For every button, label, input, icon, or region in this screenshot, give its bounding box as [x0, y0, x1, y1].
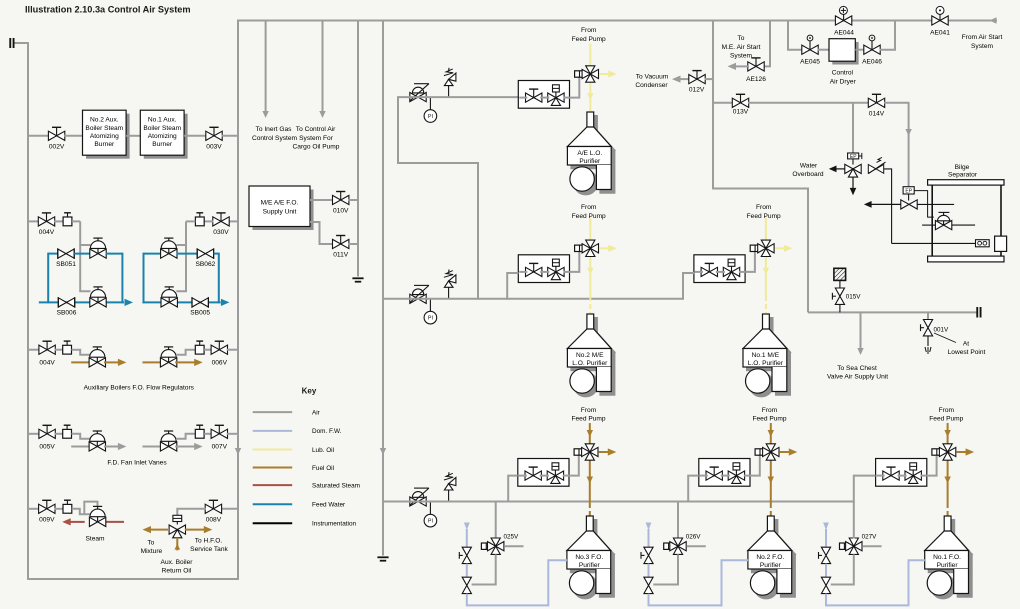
flow arrow from air start system (points left): [990, 17, 997, 23]
wire No.1 F.O. purifier feed box internal pipe: [877, 475, 885, 477]
valve 001V: [921, 320, 933, 336]
wire PRV row1 line: [398, 96, 519, 98]
control valve FD fan vane right: [160, 431, 176, 451]
pipe feed water left drop of right loop: [143, 253, 145, 304]
purifier shadow No.2 F.O.: [752, 520, 796, 599]
svg-text:Lowest Point: Lowest Point: [948, 349, 986, 356]
wire No.2 F.O. purifier feed box internal pipe: [700, 475, 708, 477]
wire between burner boxes: [126, 135, 140, 137]
valve 009V: [39, 500, 55, 513]
dom FW line mid (No.2): [648, 564, 650, 578]
EP pilot box (water overboard): [848, 153, 859, 159]
dom FW line mid (No.3): [466, 564, 468, 578]
svg-text:Fuel Oil: Fuel Oil: [312, 465, 334, 472]
svg-text:004V: 004V: [39, 359, 55, 366]
valve 030V: [213, 213, 229, 226]
svg-text:From Air Start: From Air Start: [962, 34, 1003, 41]
butterfly valve in No.2 F.O. purifier feed box: [706, 467, 722, 480]
fuel oil line from feed pump to No.1 F.O. purifier feed: [947, 423, 949, 444]
valve bilge discharge (EP operated): [901, 200, 917, 209]
svg-text:Purifier: Purifier: [579, 158, 601, 165]
strainer fitting right of SB group: [195, 213, 204, 226]
lub oil line from feed pump to No.1 M/E purifier: [765, 218, 767, 240]
three-way valve water overboard: [845, 164, 861, 177]
valve dom FW upper (No.1): [819, 547, 831, 563]
wire internal separator pipe: [922, 224, 935, 226]
wire branch to control air for cargo oil pump: [322, 21, 324, 112]
wire No.1 F.O. purifier feed box feed: [854, 476, 876, 503]
air line into right inlet vane: [143, 446, 162, 448]
pressure reducing valve row3: [410, 488, 429, 506]
cross valve 026V: [670, 538, 686, 554]
svg-text:002V: 002V: [49, 144, 65, 151]
wire 009V to strainer row5: [54, 508, 63, 510]
arrow water overboard: [836, 168, 845, 170]
box No.1 Aux. Boiler Steam Atomizing Burner: [140, 110, 184, 155]
control valve in No.2 M/E L.O. purifier feed box: [548, 259, 564, 280]
No.1 F.O. purifier feed outlet arrow: [957, 451, 967, 453]
station box No.2 F.O. purifier feed: [699, 459, 750, 487]
oily water sensor box: [976, 240, 990, 247]
svg-text:System: System: [730, 52, 752, 59]
purifier No.2 F.O.: [748, 516, 792, 595]
wire accumulator to 015V: [839, 280, 841, 288]
svg-text:Feed Pump: Feed Pump: [752, 415, 786, 422]
wire 007V to right header: [227, 433, 238, 435]
wire AE046 rejoin main: [880, 21, 896, 50]
PI gauge row1: [429, 97, 431, 110]
steam arrow out (to left): [70, 521, 85, 523]
valve AE126: [748, 58, 764, 71]
valve 015V: [832, 288, 844, 304]
three-way valve aux boiler return oil: [169, 525, 185, 538]
strainer fitting row4 left: [63, 425, 72, 438]
arrow to vacuum condenser: [680, 78, 690, 80]
svg-text:No.2 Aux.: No.2 Aux.: [90, 117, 119, 124]
strainer fitting row4 right: [195, 425, 204, 438]
svg-text:Feed Pump: Feed Pump: [929, 415, 963, 422]
wire 001V to lowest point drain: [927, 336, 929, 346]
wire No.2 F.O. purifier feed riser to pilot fitting: [750, 455, 760, 475]
butterfly valve in A/E L.O. purifier feed box: [526, 89, 542, 102]
pilot fitting No.3 F.O. purifier feed: [574, 449, 583, 455]
control valve in A/E L.O. purifier feed box: [548, 85, 564, 106]
svg-text:EP: EP: [905, 189, 912, 195]
box shadow M/E A/E F.O. supply unit: [253, 190, 314, 231]
valve AE041 with motor symbol: [932, 16, 948, 25]
valve SB062: [197, 248, 213, 258]
arrow drain down from overboard valve: [852, 177, 854, 188]
wire branch to M/E A/E F.O. supply unit: [357, 21, 359, 277]
wire No.1 M/E L.O. purifier feed riser to pilot fitting: [745, 252, 755, 272]
valve SB051: [58, 248, 74, 258]
fuel oil line into right flow regulator: [143, 361, 162, 363]
spring check valve after overboard valve: [868, 157, 885, 173]
dom FW line to purifier (No.1): [826, 560, 925, 605]
svg-text:003V: 003V: [206, 144, 222, 151]
wire right header of left enclosure: [237, 20, 239, 580]
purifier No.1 M/E L.O.: [743, 314, 787, 393]
wire left header to 005V: [28, 433, 40, 435]
dom FW line mid (No.1): [825, 564, 827, 578]
svg-text:Lub. Oil: Lub. Oil: [312, 447, 334, 454]
wire air actuation drop left group: [80, 221, 90, 245]
cross valve No.1 M/E L.O. purifier feed: [758, 240, 774, 256]
wire strainer to air drop corner: [72, 220, 80, 222]
svg-text:011V: 011V: [333, 252, 349, 259]
svg-text:Control: Control: [832, 69, 854, 76]
svg-text:009V: 009V: [39, 517, 55, 524]
box shadow control air dryer: [832, 42, 858, 65]
fitting above return oil valve: [173, 515, 182, 521]
valve 007V: [211, 425, 227, 438]
pilot fitting No.2 F.O. purifier feed: [755, 449, 764, 455]
arrow to sea chest: [857, 348, 863, 355]
wire branch to inert gas control system: [265, 21, 267, 112]
feed water arrow left group: [125, 301, 126, 303]
wire vane actuator right: [176, 434, 195, 439]
wire 014V corner down to bilge EP pilot: [884, 103, 909, 187]
svg-text:Feed Pump: Feed Pump: [747, 213, 781, 220]
station box No.2 M/E L.O. purifier feed: [518, 255, 569, 283]
pilot fitting No.2 M/E L.O. purifier feed: [575, 245, 584, 251]
wire steam regulator bypass loop: [84, 502, 97, 515]
dom FW line upper (No.1): [825, 529, 827, 548]
box shadow No.2 burner: [86, 114, 130, 159]
control valve in No.3 F.O. purifier feed box: [547, 463, 563, 484]
svg-text:System For: System For: [299, 135, 334, 142]
pilot fitting A/E L.O. purifier feed: [575, 71, 584, 77]
fuel oil line through left flow regulator: [71, 361, 90, 363]
wire EP2 stem: [908, 194, 910, 201]
pipe SB062 to corner: [214, 253, 219, 255]
fuel oil arrow to mixture (left): [150, 529, 168, 531]
pressure reducing valve row1: [410, 84, 429, 102]
wire strainer to 007V: [204, 433, 212, 435]
No.2 M/E L.O. purifier feed outlet arrow: [599, 247, 609, 249]
svg-text:010V: 010V: [333, 208, 349, 215]
flow arrow down on bilge pilot line: [905, 129, 911, 136]
svg-text:No.1 M/E: No.1 M/E: [752, 352, 780, 359]
cross valve 025V: [488, 538, 504, 554]
control valve FO flow regulator left: [89, 347, 105, 367]
bilge separator vessel: [928, 180, 1004, 185]
control valve lower left (feed water regulator): [90, 287, 106, 307]
wire 015V to sea line: [839, 304, 841, 312]
butterfly valve in No.2 M/E L.O. purifier feed box: [526, 263, 542, 276]
svg-text:027V: 027V: [862, 534, 878, 541]
valve SB005: [192, 297, 208, 307]
pilot fitting No.1 F.O. purifier feed: [932, 449, 941, 455]
pilot fitting 026V: [664, 543, 673, 549]
svg-text:007V: 007V: [212, 444, 228, 451]
wire 004V to strainer row3: [55, 349, 63, 351]
svg-text:Service Tank: Service Tank: [190, 546, 228, 553]
station box No.1 F.O. purifier feed: [876, 459, 927, 487]
arrow to cargo oil pump control air: [319, 111, 325, 118]
relief valve row3: [444, 472, 456, 501]
svg-text:At: At: [963, 340, 969, 347]
wire AE045 to dryer: [818, 49, 830, 51]
fuel oil return inlet from below: [176, 538, 178, 551]
svg-text:From: From: [581, 204, 597, 211]
purifier shadow No.1 F.O.: [928, 520, 972, 599]
wire 026V to dom FW valve: [653, 554, 678, 584]
dom fresh water supply arrow (No.1): [823, 523, 829, 531]
valve 010V: [333, 192, 349, 205]
wire strainer to vane actuator left: [72, 434, 91, 439]
svg-text:Instrumentation: Instrumentation: [312, 521, 356, 528]
control valve in No.1 M/E L.O. purifier feed box: [723, 259, 739, 280]
svg-text:Purifier: Purifier: [579, 562, 601, 569]
wire 008V to return oil valve drop: [177, 509, 206, 516]
svg-text:No.1 Aux.: No.1 Aux.: [148, 117, 177, 124]
svg-text:M/E A/E F.O.: M/E A/E F.O.: [261, 199, 299, 206]
A/E L.O. purifier feed outlet arrow: [599, 73, 609, 75]
valve 004V lower: [39, 341, 55, 354]
wire 027V stub right: [862, 545, 881, 547]
pipe feed water upper left loop: [47, 253, 49, 304]
svg-text:AE041: AE041: [930, 29, 950, 36]
svg-text:F.D. Fan Inlet Vanes: F.D. Fan Inlet Vanes: [107, 460, 167, 467]
wire EP box to overboard valve: [852, 159, 854, 165]
wire 027V upper drop: [853, 502, 855, 539]
svg-text:Feed Pump: Feed Pump: [572, 213, 606, 220]
wire left header to 004V: [28, 220, 39, 222]
svg-text:008V: 008V: [206, 516, 222, 523]
wire AE126 branch from main: [764, 21, 771, 67]
wire left header to 004V (lower): [28, 349, 40, 351]
fuel oil arrow to HFO service tank (right): [185, 529, 205, 531]
fuel oil arrow left regulator: [104, 361, 119, 363]
wire 026V stub right: [686, 545, 705, 547]
svg-text:SB006: SB006: [57, 310, 77, 317]
box No.2 Aux. Boiler Steam Atomizing Burner: [83, 110, 127, 155]
svg-text:From: From: [581, 27, 597, 34]
wire strainer to air drop corner right: [186, 220, 195, 222]
svg-text:Cargo Oil Pump: Cargo Oil Pump: [293, 143, 340, 150]
pipe feed water upper line right: [144, 253, 162, 255]
svg-text:Feed Water: Feed Water: [312, 502, 346, 509]
svg-text:Atomizing: Atomizing: [148, 133, 177, 140]
pointer line to At Lowest Point: [934, 333, 956, 343]
svg-text:No.2 F.O.: No.2 F.O.: [756, 554, 784, 561]
svg-text:030V: 030V: [213, 229, 229, 236]
svg-text:Condenser: Condenser: [635, 82, 668, 89]
svg-text:005V: 005V: [39, 444, 55, 451]
svg-text:Steam: Steam: [85, 535, 105, 542]
wire right header to 008V: [221, 508, 238, 510]
svg-text:Separator: Separator: [948, 172, 978, 179]
pump box on separator: [995, 236, 1007, 251]
svg-text:From: From: [939, 407, 955, 414]
purifier shadow No.1 M/E L.O.: [747, 318, 791, 397]
svg-text:From: From: [756, 204, 772, 211]
valve 012V: [689, 71, 705, 84]
wire wall to left header: [15, 42, 29, 44]
valve 004V (atomizing steam air): [38, 213, 54, 226]
svg-text:Return Oil: Return Oil: [162, 568, 192, 575]
valve AE046: [864, 45, 880, 54]
svg-text:026V: 026V: [686, 534, 702, 541]
wire 030V to right header: [229, 220, 238, 222]
pipe feed water right drop of left loop: [121, 253, 123, 304]
wire No.2 M/E L.O. purifier feed box internal pipe: [519, 271, 527, 273]
svg-text:SB062: SB062: [195, 261, 215, 268]
wire 001V branch: [927, 312, 929, 321]
svg-text:013V: 013V: [733, 109, 749, 116]
dom FW line to purifier (No.2): [649, 560, 749, 605]
wire strainer to steam regulator: [72, 509, 91, 515]
wire No.3 F.O. purifier feed riser to pilot fitting: [569, 455, 579, 475]
cross valve No.2 F.O. purifier feed: [763, 444, 779, 460]
key entry Saturated Steam: [253, 484, 293, 486]
svg-text:Purifier: Purifier: [937, 562, 959, 569]
wire 025V stub right: [504, 545, 523, 547]
wire No.1 M/E L.O. purifier feed box feed: [683, 273, 694, 300]
box shadow No.1 burner: [144, 114, 188, 159]
dom FW line to purifier (No.3): [467, 560, 567, 605]
wire 012V to header: [705, 78, 714, 80]
purifier No.3 F.O.: [567, 516, 611, 595]
valve 008V: [205, 500, 221, 513]
purifier No.2 M/E L.O.: [567, 314, 611, 393]
svg-text:Saturated Steam: Saturated Steam: [312, 482, 360, 489]
control valve upper right (feed water regulator): [161, 238, 177, 258]
purifier shadow No.3 F.O.: [571, 520, 615, 599]
purifier No.1 F.O.: [925, 516, 969, 595]
air arrow left vane: [104, 446, 119, 448]
wire 027V to dom FW valve: [831, 554, 854, 584]
svg-text:Boiler Steam: Boiler Steam: [85, 125, 123, 132]
svg-text:L.O. Purifier: L.O. Purifier: [748, 360, 784, 367]
PI gauge row3: [429, 502, 431, 515]
valve dom FW lower (No.1): [821, 577, 830, 593]
strainer fitting row3 right: [195, 341, 204, 354]
wire No.1 F.O. purifier feed riser to pilot fitting: [927, 455, 937, 475]
butterfly valve in No.3 F.O. purifier feed box: [525, 467, 541, 480]
valve 005V: [39, 425, 55, 438]
svg-text:Aux. Boiler: Aux. Boiler: [161, 559, 194, 566]
fuel oil line from feed pump to No.3 F.O. purifier feed: [589, 423, 591, 444]
wall symbol right (sea chest bulkhead): [976, 307, 981, 318]
PI gauge row2: [429, 299, 431, 312]
wire strainer to 030V: [204, 220, 213, 222]
pipe regulator to corner: [106, 253, 123, 255]
box Control Air Dryer: [829, 39, 855, 62]
wire air actuation to lower regulator left group: [80, 245, 90, 291]
fuel oil line from feed pump to No.2 F.O. purifier feed: [770, 423, 772, 444]
cross valve No.2 M/E L.O. purifier feed: [582, 240, 598, 256]
wire elbow x713 to sea line: [713, 189, 808, 313]
wire bilge discharge bottom line: [892, 242, 976, 244]
svg-text:001V: 001V: [934, 327, 950, 334]
wire sea service line: [808, 311, 977, 313]
svg-text:012V: 012V: [689, 86, 705, 93]
wire left header to 002V: [28, 135, 49, 137]
svg-text:Valve Air Supply Unit: Valve Air Supply Unit: [827, 374, 888, 381]
ground symbol at bottom of main drop: [377, 557, 388, 560]
valve 003V: [206, 127, 222, 140]
wire strainer to 006V: [204, 349, 212, 351]
svg-text:Air: Air: [312, 409, 321, 416]
svg-text:SB005: SB005: [190, 310, 210, 317]
wire A/E L.O. purifier feed riser to pilot fitting: [570, 77, 580, 97]
wire check valve to bilge discharge drop: [884, 169, 892, 244]
purifier shadow No.2 M/E L.O.: [571, 318, 615, 397]
control valve lower right (feed water regulator): [161, 287, 177, 307]
wire air actuation to lower regulator right group: [176, 245, 186, 291]
svg-text:Auxiliary Boilers F.O. Flow Re: Auxiliary Boilers F.O. Flow Regulators: [84, 384, 195, 391]
valve SB006: [58, 297, 74, 307]
strainer fitting left of SB group: [63, 213, 72, 226]
strainer fitting row3 left: [63, 341, 72, 354]
flow arrow down on main drop: [380, 448, 386, 455]
wire main vertical air drop to reducing stations: [382, 21, 384, 556]
svg-text:Bilge: Bilge: [955, 164, 970, 171]
steam line right of regulator: [105, 521, 124, 523]
svg-text:Burner: Burner: [94, 141, 115, 148]
key entry Instrumentation: [253, 522, 293, 524]
station box A/E L.O. purifier feed: [518, 81, 569, 109]
valve AE045: [802, 45, 818, 54]
arrow bilge discharge to overboard line: [871, 203, 901, 205]
svg-text:To Control Air: To Control Air: [296, 126, 336, 133]
wire 004V to strainer: [54, 220, 63, 222]
svg-text:Atomizing: Atomizing: [90, 133, 119, 140]
valve 002V: [48, 127, 64, 140]
svg-text:From: From: [581, 407, 597, 414]
control valve inside bilge separator: [935, 212, 951, 229]
valve dom FW lower (No.3): [462, 577, 471, 593]
No.2 F.O. purifier feed outlet arrow: [780, 451, 790, 453]
control valve in No.1 F.O. purifier feed box: [905, 463, 921, 484]
control valve FD fan vane left: [89, 431, 105, 451]
wire PRV row2 line: [383, 298, 683, 300]
valve dom FW upper (No.3): [459, 547, 471, 563]
relief valve row1: [444, 68, 456, 97]
svg-text:AE044: AE044: [834, 29, 854, 36]
wire strainer to regulator actuator left row3: [72, 350, 91, 355]
dom FW line upper (No.2): [648, 529, 650, 548]
control valve upper left (feed water regulator): [90, 238, 106, 258]
wire 006V to right header: [227, 349, 238, 351]
air drop to 025V: [495, 502, 497, 539]
key entry Fuel Oil: [253, 467, 293, 469]
wire 002V to No.2 burner box: [64, 135, 83, 137]
wire dryer to AE046: [855, 49, 864, 51]
pilot fitting 025V: [481, 543, 490, 549]
svg-text:Air Dryer: Air Dryer: [830, 78, 857, 85]
wire supply unit lower outlet: [310, 222, 333, 244]
wire fitting to return oil valve: [176, 522, 178, 525]
wire regulator actuator right row3: [176, 350, 195, 355]
svg-text:SB051: SB051: [56, 261, 76, 268]
wire No.2 M/E L.O. purifier feed riser to pilot fitting: [570, 252, 580, 272]
pipe regulator to SB062: [176, 253, 197, 255]
svg-text:To Vacuum: To Vacuum: [636, 73, 669, 80]
svg-text:No.3 F.O.: No.3 F.O.: [575, 554, 603, 561]
purifier shadow A/E L.O.: [571, 116, 615, 195]
svg-text:Purifier: Purifier: [760, 562, 782, 569]
wall symbol (engine room bulkhead, top left): [9, 38, 14, 48]
dom fresh water supply arrow (No.3): [464, 523, 470, 531]
wire bottom of left enclosure: [28, 578, 239, 580]
wire No.1 M/E L.O. purifier feed box internal pipe: [695, 271, 703, 273]
svg-text:Supply Unit: Supply Unit: [263, 208, 297, 215]
key entry Dom. F.W.: [253, 430, 293, 432]
feed water arrow right group: [221, 301, 222, 303]
